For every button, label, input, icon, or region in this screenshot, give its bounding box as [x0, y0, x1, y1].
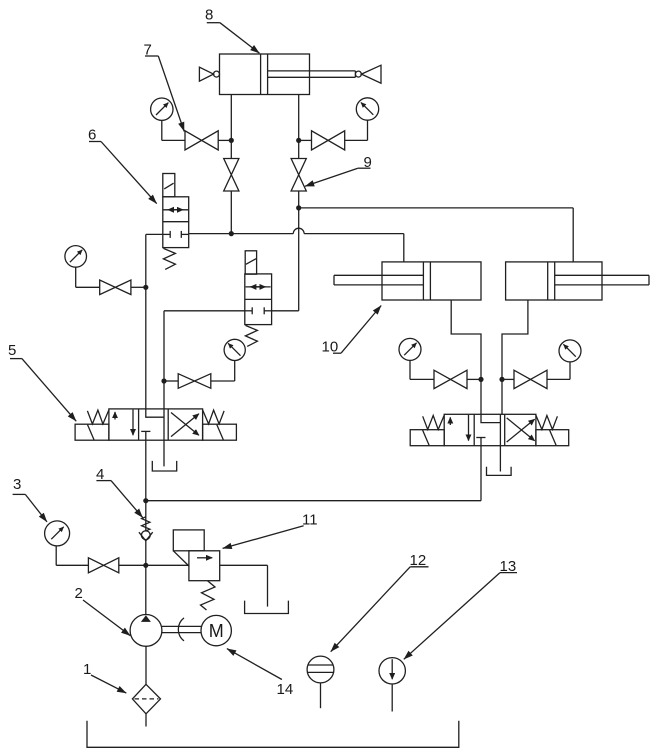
spring of valve 6: [163, 248, 175, 269]
label 11: [223, 512, 318, 549]
wire: valve to A line: [467, 378, 481, 380]
cylinder 10 (right): [506, 262, 649, 300]
wire: pump suction: [145, 646, 147, 684]
wire: left cylinder bottom port: [451, 300, 481, 379]
cylinder 10 (left): [334, 262, 481, 300]
wire: valve to B line: [164, 380, 178, 382]
node: pump discharge junction: [143, 563, 148, 568]
pressure gauge (top left): [151, 98, 173, 120]
svg-text:3: 3: [13, 476, 21, 493]
node: right valve B junction: [499, 377, 504, 382]
shutoff valve (mid left): [100, 280, 131, 295]
wire: right throttle down to node: [298, 191, 300, 208]
wire: junction to right shutoff valve: [299, 139, 312, 141]
wire: A junction to valve: [480, 379, 482, 414]
node: P junction: [143, 498, 148, 503]
label 9: [305, 154, 372, 186]
pressure gauge 3: [45, 521, 70, 546]
wire: gauge 3 down and right: [56, 546, 88, 565]
left spring of right valve: [423, 415, 445, 429]
svg-text:11: 11: [302, 512, 318, 529]
tank symbol under right valve: [487, 446, 512, 476]
label 10: [322, 306, 382, 356]
motor 14 (M): [201, 615, 231, 645]
pump 2: [130, 615, 162, 647]
node: line B junction (left throttle): [229, 231, 234, 236]
node: B line junction: [161, 378, 166, 383]
label 1: [83, 661, 126, 693]
wire: right cylinder bottom port: [502, 300, 528, 379]
wire: filter to tank: [145, 714, 147, 727]
wire: valve to main line: [131, 286, 146, 288]
thermometer 13: [379, 658, 405, 712]
wire: relief inlet: [146, 564, 189, 566]
wire: line B (hop to left cylinder 10): [304, 234, 404, 262]
shutoff valve 7: [185, 131, 218, 150]
throttle valve (left, vertical): [224, 159, 239, 192]
wire: B line to valve: [502, 378, 514, 380]
svg-text:8: 8: [205, 7, 213, 24]
relief valve 11: [173, 530, 219, 581]
wire: gauge to valve 7: [162, 120, 185, 140]
node: left valve A junction: [478, 377, 483, 382]
right spring of valve 5: [203, 410, 225, 424]
svg-text:M: M: [209, 621, 224, 641]
wire: valve to pump line: [119, 564, 146, 566]
label 13: [404, 558, 517, 659]
label 8: [205, 7, 259, 54]
spring of middle valve: [245, 325, 257, 346]
wire: gauge down and left: [211, 361, 235, 382]
label 12: [331, 552, 429, 652]
valve 5 (4/3 solenoid directional valve): [75, 409, 236, 440]
pressure gauge (right section right): [559, 340, 581, 362]
wire: cylinder 8 left port down: [230, 95, 232, 141]
wire: right valve P-line: [146, 446, 481, 501]
throttle valve 9 (right, vertical): [291, 159, 306, 192]
wire: valve 5 P-line down: [145, 440, 147, 501]
wire: middle valve left port to valve 5 B-line: [164, 311, 245, 409]
wire: junction to right throttle: [298, 140, 300, 158]
shaft pump-motor: [162, 626, 202, 632]
shutoff valve (mid center): [178, 374, 211, 389]
label 14: [227, 649, 293, 698]
right spring of right valve: [536, 415, 558, 429]
label 2: [75, 585, 131, 636]
node: right port junction: [296, 138, 301, 143]
label 3: [13, 476, 47, 522]
shutoff valve (right section left): [434, 370, 467, 388]
shutoff valve (right section right): [514, 370, 547, 388]
svg-text:5: 5: [8, 342, 16, 359]
wire: main vertical line A-port of valve 5: [145, 287, 147, 409]
wire: gauge down: [410, 360, 434, 379]
label 5: [8, 342, 76, 421]
wire: relief outlet to tank: [220, 565, 268, 606]
wire: line A to right cylinder 10: [299, 208, 574, 262]
shutoff valve (bottom left): [88, 558, 118, 573]
node: line A junction: [296, 205, 301, 210]
svg-text:2: 2: [75, 585, 83, 602]
pressure gauge (mid center): [224, 339, 245, 360]
shutoff valve (top right): [312, 131, 345, 150]
wire: middle valve right port up to line A node: [272, 208, 299, 311]
spring of relief valve: [201, 581, 216, 610]
label 6: [88, 127, 157, 204]
label 7: [144, 42, 185, 132]
wire: B junction to valve: [501, 379, 503, 414]
4/3 solenoid directional valve (right): [410, 414, 569, 445]
coupling symbol: [178, 618, 184, 641]
svg-text:1: 1: [83, 661, 91, 678]
left spring of valve 5: [87, 410, 109, 424]
wire: valve to right gauge: [547, 362, 570, 380]
2/2 solenoid valve (middle): [245, 251, 272, 325]
wire hop over vertical line: [293, 228, 304, 233]
wire: valve 7 to junction: [218, 139, 231, 141]
tank symbol (relief drain): [245, 601, 289, 614]
pressure gauge (mid left): [65, 246, 87, 268]
wire: left throttle down to line B: [230, 191, 232, 234]
wire: line B (valve 6 to hop): [189, 233, 294, 235]
check valve 4 (spring loaded): [139, 501, 153, 566]
filter 1: [132, 684, 160, 714]
wire: valve to right gauge: [345, 120, 368, 140]
level gauge 12: [307, 656, 334, 708]
node: left port junction: [229, 138, 234, 143]
wire: junction to left throttle: [230, 140, 232, 158]
cylinder 8 (double-acting hydraulic cylinder): [199, 54, 381, 95]
valve 6 (2/2 solenoid valve): [163, 174, 189, 248]
wire: cylinder 8 right port down: [298, 95, 300, 141]
pressure gauge (right section left): [399, 338, 421, 360]
wire: gauge down and right: [76, 267, 100, 287]
label 4: [96, 466, 143, 518]
node: main line junction: [143, 285, 148, 290]
svg-text:14: 14: [277, 681, 294, 698]
wire: valve 6 left port: [146, 234, 163, 287]
reservoir tank: [87, 721, 459, 748]
wire: junction to pump: [145, 565, 147, 614]
pressure gauge (top right): [356, 98, 378, 120]
tank symbol under valve 5: [152, 440, 176, 471]
